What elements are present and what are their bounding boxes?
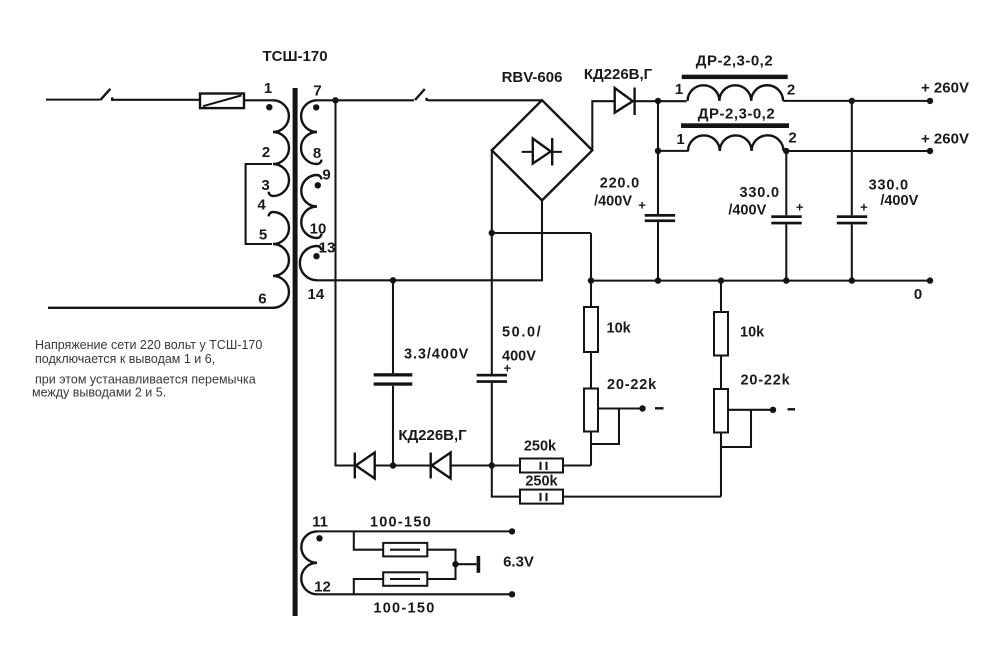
resistor 10k #2	[714, 281, 765, 389]
svg-text:7: 7	[313, 82, 321, 99]
svg-text:+: +	[796, 200, 804, 215]
svg-text:250k: 250k	[524, 438, 557, 454]
heater phase dot pin 11	[316, 535, 322, 541]
junction dot bias x393	[390, 462, 396, 468]
wire bias feed vertical x335	[336, 100, 356, 465]
junction dot rail x658	[655, 277, 661, 283]
svg-text:4: 4	[257, 197, 266, 214]
terminal dot +260V #2	[927, 148, 933, 154]
wire fuse to pin 1	[244, 99, 273, 101]
wire 0 rail right	[591, 280, 930, 282]
junction dot rail x591	[588, 277, 594, 283]
wire choke1 to +260V terminal	[783, 100, 930, 102]
wire minus branch horizontal to x591	[492, 232, 591, 234]
wire heater bottom 6.3V	[317, 593, 512, 595]
svg-text:6.3V: 6.3V	[503, 553, 534, 570]
wire vertical x658 top	[657, 101, 659, 214]
svg-text:/400V: /400V	[728, 202, 766, 218]
svg-text:100-150: 100-150	[373, 600, 435, 616]
svg-text:2: 2	[788, 130, 796, 147]
junction dot choke2 branch	[655, 148, 661, 154]
svg-text:+: +	[638, 198, 646, 213]
junction dot rail/3.3cap	[390, 277, 396, 283]
svg-text:+ 260V: + 260V	[921, 131, 969, 148]
svg-text:КД226В,Г: КД226В,Г	[398, 427, 467, 444]
junction dot rail x786	[783, 277, 789, 283]
wire pin 7 to switch	[317, 99, 414, 101]
resistor 100-150 #2	[354, 564, 456, 594]
wire bridge plus output up	[592, 101, 614, 150]
svg-text:2: 2	[787, 81, 795, 98]
capacitor 50.0/400V	[477, 324, 543, 496]
wire 0-rail left: pin 14 to bridge bottom	[317, 200, 542, 280]
junction dot bias x492	[489, 462, 495, 468]
capacitor 330.0/400V #2	[837, 101, 919, 281]
svg-text:20-22k: 20-22k	[607, 377, 657, 393]
wire heater top 6.3V	[317, 530, 512, 532]
junction dot rail x852	[849, 277, 855, 283]
svg-text:11: 11	[312, 513, 328, 530]
junction dot 6.3V tap	[452, 561, 458, 567]
svg-text:9: 9	[322, 167, 330, 184]
junction dot rail x721	[718, 277, 724, 283]
svg-text:при этом устанавливается перем: при этом устанавливается перемычка	[35, 372, 256, 386]
svg-text:6: 6	[258, 290, 266, 307]
capacitor 3.3/400V	[374, 280, 470, 465]
terminal dot heater top	[509, 528, 515, 534]
fuse FU1	[200, 94, 244, 109]
wire diode to choke 1	[635, 100, 687, 102]
resistor 100-150 #1	[354, 531, 456, 564]
svg-text:8: 8	[313, 145, 321, 162]
svg-text:RBV-606: RBV-606	[502, 69, 563, 86]
primary phase dot	[266, 104, 272, 110]
svg-text:+ 260V: + 260V	[921, 80, 969, 97]
svg-text:1: 1	[676, 131, 684, 148]
svg-text:10k: 10k	[607, 320, 632, 336]
svg-text:2: 2	[262, 144, 270, 161]
svg-text:ДР-2,3-0,2: ДР-2,3-0,2	[698, 106, 775, 123]
diode КД226В,Г bias #1	[355, 453, 431, 479]
potentiometer 20-22k #1	[584, 377, 664, 465]
transformer secondary winding pins 7-8	[301, 100, 321, 164]
svg-text:/400V: /400V	[880, 193, 918, 209]
resistor 250k #1	[492, 438, 591, 472]
bridge rectifier RBV-606	[492, 100, 593, 200]
choke ДР-2,3-0,2 #2	[676, 106, 796, 152]
transformer primary winding pins 1-2-3	[269, 100, 289, 196]
svg-text:Напряжение сети 220 вольт у ТС: Напряжение сети 220 вольт у ТСШ-170	[35, 338, 262, 352]
svg-text:между выводами 2 и 5.: между выводами 2 и 5.	[32, 385, 166, 399]
secondary phase dot pin 13	[313, 253, 319, 259]
wire mains line left	[46, 99, 101, 101]
svg-text:400V: 400V	[502, 348, 536, 364]
svg-text:330.0: 330.0	[740, 185, 780, 201]
svg-text:10k: 10k	[740, 324, 765, 340]
junction dot minus branch	[489, 230, 495, 236]
svg-text:КД226В,Г: КД226В,Г	[584, 66, 653, 83]
terminal dot +260V #1	[927, 98, 933, 104]
wire switch to fuse	[112, 99, 200, 101]
junction dot diode output	[655, 98, 661, 104]
secondary phase dot pin 7	[313, 104, 319, 110]
svg-text:+: +	[860, 200, 868, 215]
wire to choke 2	[658, 150, 689, 152]
transformer secondary winding pins 9-10	[301, 175, 321, 238]
potentiometer 20-22k #2	[714, 373, 795, 497]
transformer primary winding pins 4-5-6	[48, 212, 289, 308]
capacitor 220.0/400V	[594, 175, 675, 280]
choke ДР-2,3-0,2 #1	[675, 53, 795, 101]
capacitor 330.0/400V #1	[728, 151, 804, 281]
svg-text:5: 5	[259, 226, 267, 243]
svg-text:10: 10	[310, 221, 327, 238]
transformer secondary winding pins 13-14	[300, 246, 322, 280]
heater winding pins 11-12	[301, 531, 317, 594]
resistor 10k #1	[584, 307, 632, 389]
jumper bracket pins 2-5	[246, 164, 272, 244]
junction dot choke2 out	[783, 148, 789, 154]
svg-text:3.3/400V: 3.3/400V	[404, 346, 469, 362]
secondary phase dot pin 9	[315, 182, 321, 188]
wire x591 down to 10k	[590, 233, 592, 307]
6.3V tap terminal	[456, 556, 479, 573]
svg-text:ТСШ-170: ТСШ-170	[262, 48, 327, 65]
svg-text:14: 14	[308, 286, 325, 303]
svg-text:13: 13	[319, 240, 336, 257]
svg-text:0: 0	[914, 286, 922, 303]
svg-text:220.0: 220.0	[600, 175, 640, 191]
svg-text:3: 3	[261, 177, 269, 194]
svg-text:ДР-2,3-0,2: ДР-2,3-0,2	[696, 53, 773, 70]
diode КД226В,Г top	[615, 88, 635, 116]
junction dot cap330-2 branch	[849, 98, 855, 104]
svg-text:1: 1	[675, 81, 683, 98]
wire choke2 to +260V terminal 2	[784, 150, 931, 152]
diode КД226В,Г bias #2	[431, 453, 492, 479]
svg-text:20-22k: 20-22k	[741, 373, 791, 389]
wire bridge minus vertical x492	[491, 150, 493, 374]
svg-text:1: 1	[264, 80, 272, 97]
svg-text:50.0/: 50.0/	[502, 324, 542, 340]
transformer T1 core	[293, 88, 298, 616]
junction dot pin7 bias feed	[332, 97, 338, 103]
terminal dot 0	[927, 277, 933, 283]
svg-text:330.0: 330.0	[869, 178, 909, 194]
switch S1 (mains)	[101, 89, 113, 101]
resistor 250k #2	[520, 474, 721, 504]
switch S2 (secondary)	[415, 89, 427, 101]
svg-text:100-150: 100-150	[370, 514, 432, 530]
terminal dot heater bottom	[509, 591, 515, 597]
svg-text:подключается к выводам 1 и 6,: подключается к выводам 1 и 6,	[35, 352, 215, 366]
svg-text:250k: 250k	[525, 474, 558, 490]
svg-text:12: 12	[314, 578, 331, 595]
svg-text:/400V: /400V	[594, 193, 632, 209]
wire switch to bridge top	[428, 99, 542, 101]
note text block	[32, 338, 262, 400]
